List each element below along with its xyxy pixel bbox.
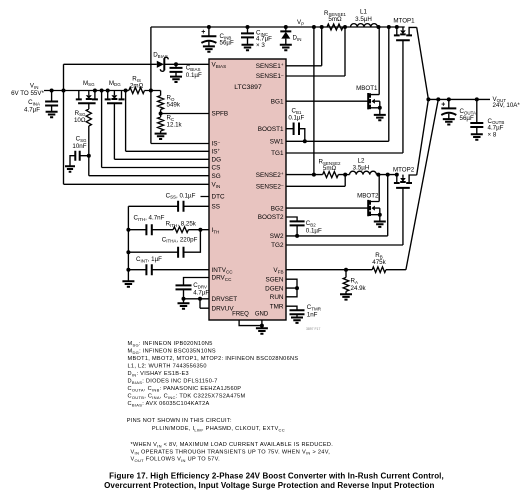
svg-text:BG1: BG1 bbox=[271, 98, 284, 105]
svg-text:MSG​: INFINEON IPB020N10N5: MSG​: INFINEON IPB020N10N5 bbox=[128, 341, 213, 347]
svg-text:TG1: TG1 bbox=[271, 150, 284, 157]
svg-text:VOUT​ FOLLOWS VIN​ UP TO 57V.: VOUT​ FOLLOWS VIN​ UP TO 57V. bbox=[131, 457, 221, 463]
svg-text:SGEN: SGEN bbox=[266, 276, 284, 283]
svg-text:24.9k: 24.9k bbox=[351, 285, 367, 292]
svg-text:SENSE2–​: SENSE2–​ bbox=[256, 183, 284, 191]
svg-text:12.1k: 12.1k bbox=[167, 121, 183, 128]
svg-text:*WHEN VIN​ < 8V, MAXIMUM LOAD: *WHEN VIN​ < 8V, MAXIMUM LOAD CURRENT AV… bbox=[131, 442, 334, 448]
svg-text:TG2: TG2 bbox=[271, 242, 284, 249]
svg-text:SW2: SW2 bbox=[270, 233, 284, 240]
svg-text:0.1µF: 0.1µF bbox=[288, 115, 304, 122]
svg-text:PINS NOT SHOWN IN THIS CIRCUIT: PINS NOT SHOWN IN THIS CIRCUIT: bbox=[127, 418, 232, 424]
svg-text:BOOST1: BOOST1 bbox=[258, 126, 284, 133]
svg-text:MBOT2: MBOT2 bbox=[357, 193, 379, 200]
svg-text:3.5µH: 3.5µH bbox=[355, 16, 372, 23]
svg-text:+: + bbox=[201, 29, 205, 36]
svg-text:L2: L2 bbox=[358, 157, 365, 164]
svg-text:4.7µF: 4.7µF bbox=[193, 289, 209, 296]
svg-text:FREQ: FREQ bbox=[232, 311, 249, 317]
svg-text:SENSE1–​: SENSE1–​ bbox=[256, 72, 284, 80]
svg-text:56µF: 56µF bbox=[460, 115, 474, 122]
svg-text:DBIAS​: DIODES INC DFLS1150-7: DBIAS​: DIODES INC DFLS1150-7 bbox=[128, 379, 218, 385]
svg-text:475k: 475k bbox=[372, 259, 386, 266]
svg-text:TMR: TMR bbox=[270, 303, 284, 310]
svg-text:4.7µF: 4.7µF bbox=[24, 106, 40, 113]
svg-text:MBOT1, MBOT2, MTOP1, MTOP2: IN: MBOT1, MBOT2, MTOP1, MTOP2: INFINEON BSC… bbox=[128, 356, 299, 362]
svg-text:× 3: × 3 bbox=[256, 42, 265, 49]
svg-text:3.5µH: 3.5µH bbox=[353, 165, 370, 172]
svg-text:549k: 549k bbox=[167, 101, 181, 108]
svg-text:MTOP1: MTOP1 bbox=[393, 18, 415, 25]
svg-text:SS: SS bbox=[212, 204, 220, 211]
svg-text:Figure 17. High Efficiency 2-P: Figure 17. High Efficiency 2-Phase 24V B… bbox=[109, 471, 444, 480]
svg-text:SPFB: SPFB bbox=[212, 111, 229, 118]
svg-text:3897 F17: 3897 F17 bbox=[306, 327, 320, 331]
svg-text:SW1: SW1 bbox=[270, 139, 284, 146]
svg-text:5mΩ: 5mΩ bbox=[323, 165, 337, 172]
svg-text:SENSE1+​: SENSE1+​ bbox=[256, 62, 284, 70]
svg-text:DRVSET: DRVSET bbox=[212, 296, 238, 303]
svg-text:DIN​: VISHAY ES1B-E3: DIN​: VISHAY ES1B-E3 bbox=[128, 371, 189, 377]
svg-text:Overcurrent Protection, Input: Overcurrent Protection, Input Voltage Su… bbox=[104, 481, 434, 490]
svg-text:CINT​, 1µF: CINT​, 1µF bbox=[136, 256, 162, 263]
svg-text:COUTB​, CINA​, CINC​: TDK C322: COUTB​, CINA​, CINC​: TDK C3225X7S2A475M bbox=[128, 394, 246, 400]
svg-text:COUTA​, CINB​: PANASONIC EEHZA: COUTA​, CINB​: PANASONIC EEHZA1J560P bbox=[128, 386, 242, 392]
svg-text:2mΩ: 2mΩ bbox=[130, 83, 144, 90]
svg-text:0.1µF: 0.1µF bbox=[186, 72, 202, 79]
svg-text:0.1µF: 0.1µF bbox=[306, 228, 322, 235]
svg-text:MTOP2: MTOP2 bbox=[393, 166, 415, 173]
svg-text:10Ω: 10Ω bbox=[74, 117, 86, 124]
svg-text:BOOST2: BOOST2 bbox=[258, 214, 284, 221]
svg-text:56µF: 56µF bbox=[220, 40, 234, 47]
svg-text:10nF: 10nF bbox=[72, 143, 86, 150]
svg-text:× 8: × 8 bbox=[488, 131, 497, 138]
svg-text:RUN: RUN bbox=[270, 294, 284, 301]
svg-text:BG2: BG2 bbox=[271, 205, 284, 212]
svg-text:SG: SG bbox=[212, 173, 221, 180]
svg-text:VIN​ OPERATES THROUGH TRANSIEN: VIN​ OPERATES THROUGH TRANSIENTS UP TO 7… bbox=[131, 449, 331, 455]
svg-text:1nF: 1nF bbox=[307, 311, 318, 318]
svg-text:MDG​: INFINEON BSC035N10NS: MDG​: INFINEON BSC035N10NS bbox=[128, 349, 216, 355]
svg-text:DRVUV: DRVUV bbox=[212, 305, 235, 312]
svg-text:CS: CS bbox=[212, 165, 221, 172]
svg-text:DGEN: DGEN bbox=[265, 285, 284, 292]
svg-text:L1, L2: WURTH 7443556350: L1, L2: WURTH 7443556350 bbox=[128, 364, 207, 370]
svg-text:24V, 10A*: 24V, 10A* bbox=[493, 102, 521, 109]
svg-text:+: + bbox=[441, 101, 445, 108]
svg-text:DTC: DTC bbox=[212, 194, 225, 201]
svg-text:MBOT1: MBOT1 bbox=[356, 85, 378, 92]
svg-text:DG: DG bbox=[212, 157, 222, 164]
svg-text:SENSE2+​: SENSE2+​ bbox=[256, 171, 284, 179]
svg-text:LTC3897: LTC3897 bbox=[234, 84, 262, 91]
svg-text:L1: L1 bbox=[360, 9, 367, 16]
svg-text:CBIAS​: AVX 06035C104KAT2A: CBIAS​: AVX 06035C104KAT2A bbox=[128, 401, 210, 407]
svg-text:GND: GND bbox=[255, 311, 269, 317]
svg-text:6V TO 55V*: 6V TO 55V* bbox=[11, 90, 44, 97]
svg-text:PLLIN/MODE, ILIM​, PHASMD, CLK: PLLIN/MODE, ILIM​, PHASMD, CLKOUT, EXTVC… bbox=[152, 426, 285, 432]
svg-text:5mΩ: 5mΩ bbox=[328, 16, 342, 23]
